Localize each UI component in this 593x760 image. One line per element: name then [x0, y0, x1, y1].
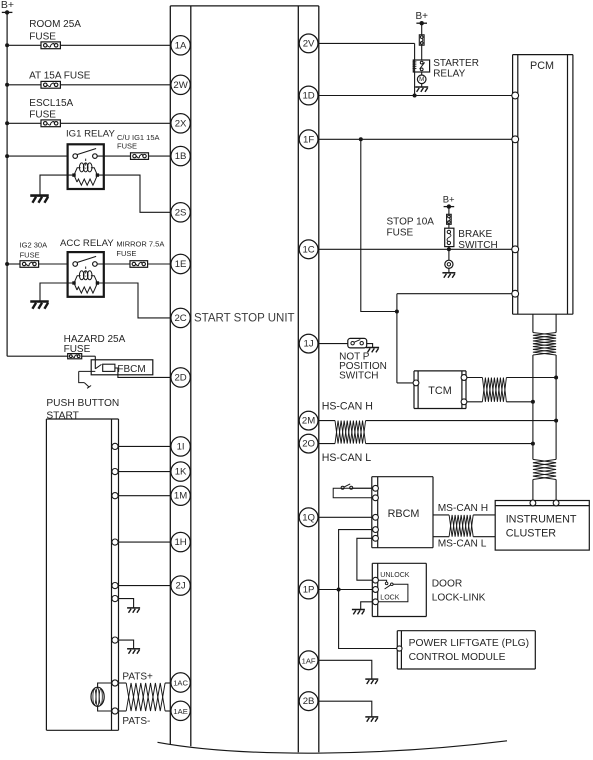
svg-text:STOP 10A: STOP 10A [387, 216, 435, 227]
svg-text:MIRROR 7.5A: MIRROR 7.5A [116, 240, 164, 249]
svg-text:INSTRUMENT: INSTRUMENT [506, 513, 577, 525]
svg-text:1J: 1J [304, 339, 314, 350]
svg-text:AT 15A FUSE: AT 15A FUSE [29, 70, 91, 81]
svg-text:DOOR: DOOR [432, 579, 463, 590]
svg-text:M: M [419, 76, 424, 83]
svg-text:2X: 2X [175, 118, 187, 129]
svg-text:1F: 1F [303, 134, 314, 145]
svg-text:1A: 1A [175, 40, 187, 51]
svg-text:SWITCH: SWITCH [458, 240, 497, 251]
svg-text:2D: 2D [174, 372, 186, 383]
svg-text:IG1 RELAY: IG1 RELAY [66, 128, 115, 139]
svg-text:CLUSTER: CLUSTER [506, 527, 557, 539]
svg-text:MS-CAN H: MS-CAN H [438, 503, 488, 514]
svg-text:RBCM: RBCM [388, 508, 420, 520]
svg-text:LOCK-LINK: LOCK-LINK [432, 593, 486, 604]
svg-text:PATS-: PATS- [122, 716, 150, 727]
svg-text:2J: 2J [176, 581, 186, 592]
svg-text:HS-CAN L: HS-CAN L [322, 452, 372, 464]
svg-text:1C: 1C [302, 244, 314, 255]
svg-text:START STOP UNIT: START STOP UNIT [194, 312, 295, 324]
svg-text:PATS+: PATS+ [122, 672, 153, 683]
svg-text:FBCM: FBCM [117, 364, 145, 375]
svg-text:B+: B+ [1, 0, 14, 11]
svg-text:2C: 2C [174, 313, 186, 324]
svg-text:FUSE: FUSE [29, 110, 56, 121]
svg-text:MS-CAN L: MS-CAN L [438, 538, 487, 549]
svg-text:FUSE: FUSE [116, 249, 136, 258]
svg-text:UNLOCK: UNLOCK [380, 572, 410, 579]
svg-text:1B: 1B [175, 151, 187, 162]
svg-text:2B: 2B [303, 696, 315, 707]
svg-text:1P: 1P [303, 585, 315, 596]
svg-text:2S: 2S [175, 207, 187, 218]
svg-text:1D: 1D [302, 91, 314, 102]
svg-text:FUSE: FUSE [117, 141, 137, 150]
svg-text:1AE: 1AE [173, 707, 187, 716]
svg-text:1E: 1E [175, 259, 187, 270]
svg-text:2W: 2W [173, 80, 188, 91]
svg-text:SWITCH: SWITCH [339, 371, 378, 382]
svg-text:2O: 2O [302, 439, 315, 450]
svg-text:LOCK: LOCK [380, 595, 399, 602]
svg-text:ROOM 25A: ROOM 25A [29, 19, 81, 30]
svg-text:PCM: PCM [530, 60, 554, 72]
svg-text:POWER LIFTGATE (PLG): POWER LIFTGATE (PLG) [409, 638, 530, 649]
svg-text:ESCL15A: ESCL15A [29, 98, 73, 109]
svg-text:B+: B+ [443, 194, 455, 205]
svg-text:BRAKE: BRAKE [458, 229, 492, 240]
svg-text:HS-CAN H: HS-CAN H [322, 401, 373, 413]
svg-text:1H: 1H [174, 537, 186, 548]
svg-text:1AC: 1AC [173, 679, 188, 688]
svg-text:FUSE: FUSE [20, 250, 40, 259]
svg-text:START: START [46, 410, 78, 421]
svg-text:FUSE: FUSE [29, 31, 56, 42]
svg-text:1I: 1I [177, 441, 185, 452]
svg-text:2V: 2V [303, 38, 315, 49]
svg-text:TCM: TCM [428, 385, 451, 397]
svg-text:FUSE: FUSE [64, 344, 91, 355]
svg-text:1K: 1K [175, 467, 187, 478]
svg-text:CONTROL MODULE: CONTROL MODULE [409, 652, 506, 663]
svg-text:B+: B+ [416, 11, 429, 22]
svg-text:PUSH BUTTON: PUSH BUTTON [46, 398, 119, 409]
svg-text:1AF: 1AF [302, 656, 316, 665]
svg-text:2M: 2M [302, 416, 315, 427]
svg-text:STARTER: STARTER [433, 58, 479, 69]
svg-text:ACC RELAY: ACC RELAY [60, 238, 114, 249]
svg-text:FUSE: FUSE [387, 227, 414, 238]
svg-text:1Q: 1Q [302, 512, 315, 523]
svg-text:IG2 30A: IG2 30A [20, 240, 48, 249]
svg-text:RELAY: RELAY [433, 69, 465, 80]
svg-text:1M: 1M [174, 491, 187, 502]
